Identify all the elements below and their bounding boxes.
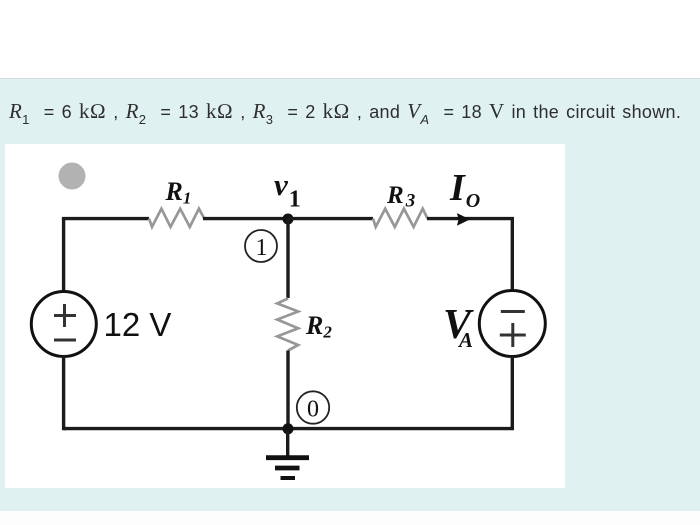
resistor R3 (373, 209, 428, 227)
svg-text:0: 0 (307, 397, 319, 423)
ground bar 1 (266, 455, 309, 460)
svg-text:12 V: 12 V (104, 306, 172, 343)
node v1 dot (283, 214, 294, 225)
node number 0 circle (297, 391, 329, 423)
wire 12V source to bottom left corner (64, 356, 66, 429)
white top band (0, 0, 700, 79)
bottom wire to left (64, 427, 288, 430)
wire node v1 down to R2 (286, 219, 289, 298)
wire top-left: left corner to R1 (64, 219, 149, 220)
ground bar 2 (275, 466, 300, 471)
question text (9, 99, 699, 124)
node number 1 circle (245, 230, 277, 262)
source VA circle (479, 291, 545, 357)
source 12V circle (31, 292, 96, 357)
gray bullet marker (59, 163, 86, 190)
resistor R2 (277, 299, 298, 351)
VA minus sign (501, 310, 525, 313)
current arrow Io (457, 213, 470, 226)
svg-text:1: 1 (256, 235, 268, 261)
svg-text:VA: VA (443, 302, 474, 352)
wire node v1 to R3 (288, 217, 373, 220)
junction node dot (283, 423, 294, 434)
wire R2 to bottom junction (286, 351, 289, 429)
white image panel (5, 144, 565, 488)
resistor R1 (149, 209, 204, 227)
ground stem (286, 430, 289, 456)
wire VA to bottom right corner (288, 356, 512, 429)
12V minus sign (54, 339, 76, 342)
12V plus sign (54, 304, 76, 327)
VA plus sign (500, 323, 526, 347)
wire R3 to right corner (427, 219, 512, 292)
white bottom band (0, 511, 700, 525)
wire R1 to node v1 (203, 217, 288, 220)
ground bar 3 (281, 476, 296, 480)
wire left vertical from top corner to source (62, 219, 65, 292)
